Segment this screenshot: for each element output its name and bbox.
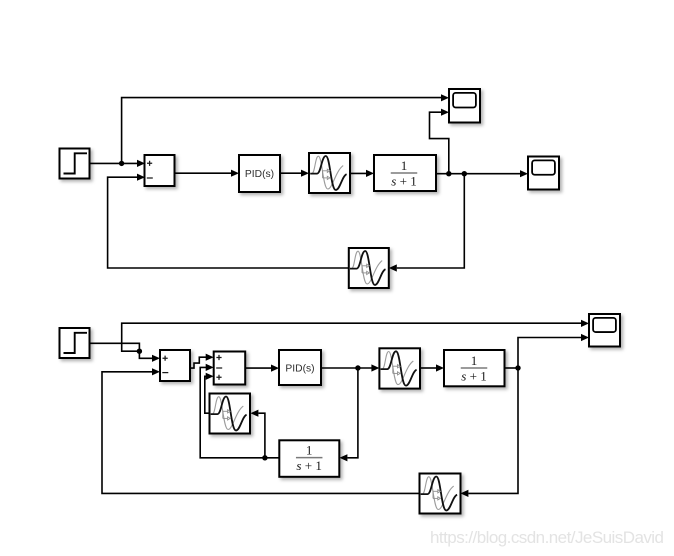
sum block 1 (bottom diagram, + -) [160,350,190,381]
wire: branch from junction left and up to scope input 1 (long top line) [122,320,589,351]
PID controller block PID(s) (bottom diagram) [279,350,321,385]
inner transport delay block (anti-windup path) [210,394,251,434]
wire: branch up from junction 1 to scope input 2 (zigzag) [430,109,450,174]
wire: junction down-right into sum 1 + input [139,351,160,362]
wire: branch down from plant output to outer feedback transport delay [460,368,518,497]
wire: branch down from junction 2 to feedback transport delay [389,174,465,272]
scope block with two inputs (bottom diagram) [589,314,620,347]
wire: step output to sum + input, with arrowhead [90,160,146,167]
wire: branch from junction up and right to scope input 1 [122,94,449,163]
wire: PID output to transport delay input [280,170,309,177]
wire: inner transfer fcn output up to sum 2 - input [200,364,279,458]
transport delay block (top forward path) [309,153,350,193]
scope block with two inputs (top diagram) [449,89,480,123]
wire: branch up from inner feedback junction into inner transport delay input [250,410,265,458]
transport delay block (bottom outer feedback path) [420,474,461,514]
junction dot after PID output [355,365,360,370]
svg-text:PID(s): PID(s) [245,169,274,180]
svg-text:s + 1: s + 1 [461,369,487,384]
junction dot on step output wire [119,161,124,166]
wire: sum 1 output staircase to sum 2 top + input [190,354,214,369]
svg-text:https://blog.csdn.net/JeSuisDa: https://blog.csdn.net/JeSuisDavid [430,528,664,547]
scope block (top diagram right) [528,157,559,190]
junction dot 1 on plant output [446,171,451,176]
wire: forward delay output to transfer fcn input [421,364,444,371]
wire: PID output to forward transport delay [321,364,379,371]
svg-text:s + 1: s + 1 [391,174,417,189]
sum block 2 (bottom diagram, + - +) [214,352,246,385]
junction dot 2 on plant output [462,171,467,176]
PID controller block PID(s) (top diagram) [239,155,280,192]
svg-text:1: 1 [471,353,478,368]
wire: branch up from plant output to scope input 2 [518,334,589,368]
sum block (top diagram, + -) [145,155,175,186]
junction dot at plant output (bottom diagram) [515,365,520,370]
wire: inner transport delay output up to sum 2 bottom + input [205,373,214,414]
wire: sum output to PID input [175,170,240,177]
junction dot on step branch (bottom diagram) [137,349,142,354]
wire: outer feedback transport delay output to sum 1 - input [102,368,420,493]
transfer function block 1/(s+1) (bottom plant) [444,350,505,386]
wire: transport delay output to transfer fcn input [350,170,374,177]
junction dot on inner feedback line [262,455,267,460]
transport delay block (top feedback path) [349,248,389,288]
step source block (top diagram) [60,149,90,179]
wire: plant output to junction [505,367,519,369]
svg-text:1: 1 [306,442,313,457]
wire: transfer fcn output to scope 2 [436,170,528,177]
wire: step output jog down to junction [90,343,140,351]
svg-text:PID(s): PID(s) [285,363,314,374]
svg-text:1: 1 [401,158,408,173]
transfer function block 1/(s+1) (top diagram) [374,155,436,191]
svg-text:s + 1: s + 1 [296,458,322,473]
wire: branch down from PID output into inner transfer fcn input [339,368,358,461]
step source block (bottom diagram) [60,328,90,358]
watermark text [430,528,664,547]
wire: feedback transport delay output to sum - input [108,174,349,268]
inner transfer function block 1/(s+1) (fed from right) [279,440,339,477]
wire: sum 2 output to PID input [245,365,279,372]
transport delay block (bottom forward path) [379,348,420,388]
